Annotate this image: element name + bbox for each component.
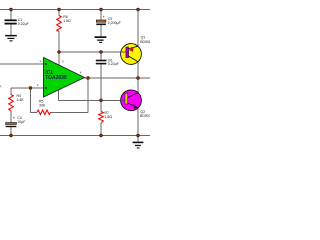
svg-text:3: 3 (60, 87, 62, 91)
svg-text:0.22µF: 0.22µF (18, 22, 29, 26)
svg-text:2: 2 (37, 83, 39, 87)
svg-text:10µF: 10µF (17, 120, 25, 124)
svg-text:0.22µF: 0.22µF (108, 62, 119, 66)
svg-text:3.3K: 3.3K (17, 98, 25, 102)
svg-text:TDA2030: TDA2030 (45, 75, 67, 81)
svg-text:4: 4 (80, 70, 82, 74)
svg-text:BD908: BD908 (140, 40, 150, 44)
svg-text:BD907: BD907 (140, 114, 150, 118)
svg-text:2,200µF: 2,200µF (108, 21, 121, 25)
svg-text:1.5Ω: 1.5Ω (105, 115, 113, 119)
svg-text:1.5Ω: 1.5Ω (63, 19, 71, 23)
svg-text:30K: 30K (39, 103, 46, 107)
svg-text:5: 5 (62, 60, 64, 64)
svg-text:1: 1 (39, 59, 41, 63)
